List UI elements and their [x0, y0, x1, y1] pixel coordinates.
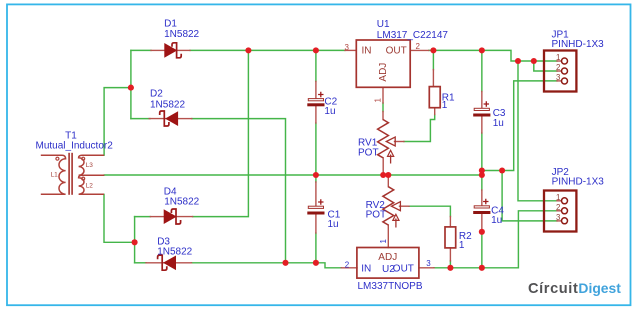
pin lead D2 left: [149, 118, 166, 120]
junction ground branch upper: [479, 167, 485, 173]
junction D2 riser on bottom rail: [282, 260, 288, 266]
svg-text:L2: L2: [86, 183, 94, 190]
pin lead U1 IN: [345, 49, 356, 51]
svg-text:CírcuitDigest: CírcuitDigest: [528, 280, 621, 297]
pin stub JP2 pin2: [557, 210, 561, 212]
junction C3 on out rail: [479, 47, 485, 53]
wire to D3 cathode: [135, 262, 146, 264]
svg-text:3: 3: [345, 43, 350, 52]
junction C1 on bottom rail: [313, 260, 319, 266]
resistor R1: [429, 87, 440, 108]
svg-text:1u: 1u: [493, 118, 504, 129]
pin stub JP2 pin3: [557, 220, 561, 222]
svg-text:IN: IN: [362, 46, 372, 57]
pin lead RV2 top: [387, 175, 389, 187]
wire D2 anode to negative rail: [192, 119, 286, 263]
svg-text:1N5822: 1N5822: [164, 196, 199, 207]
wire positive rail to JP2 pin1: [518, 61, 557, 201]
wire R2 bottom: [449, 261, 451, 268]
wire C3 bottom to ground node: [481, 133, 483, 175]
pin lead C4 top: [481, 190, 483, 206]
svg-text:IN: IN: [361, 263, 371, 274]
pin lead D1 left: [151, 49, 165, 51]
junction JP1 pin2 branch: [531, 58, 537, 64]
svg-text:D2: D2: [150, 89, 163, 100]
pin lead RV1 top: [382, 112, 384, 120]
junction JP2 pin3 branch: [499, 167, 505, 173]
pin lead R1 bottom: [434, 108, 436, 115]
junction C2 on top rail: [313, 47, 319, 53]
svg-text:1u: 1u: [491, 215, 502, 226]
wire D4 cathode to positive rail: [193, 50, 249, 216]
wire D4-D3 column: [134, 217, 136, 263]
wire D1-D2 anode column: [130, 50, 132, 118]
wire to D2 cathode: [131, 118, 150, 120]
wire negative rail right to JP2 pin2: [434, 211, 557, 268]
pin lead D4 left: [150, 216, 164, 218]
wire ground branch to JP2 pin3: [502, 171, 557, 221]
svg-text:ADJ: ADJ: [378, 252, 397, 263]
pin lead R2 top: [449, 217, 451, 227]
diode D4 1N5822: [164, 209, 180, 224]
svg-text:1u: 1u: [324, 106, 335, 117]
svg-text:1N5822: 1N5822: [157, 246, 192, 257]
wire C1 top: [315, 175, 317, 182]
junction JP2 pin1 branch: [515, 58, 521, 64]
svg-text:1: 1: [556, 193, 560, 202]
pin lead D3 left: [146, 262, 164, 264]
pin lead C3 bottom: [481, 116, 483, 133]
svg-text:3: 3: [556, 213, 560, 222]
junction ground rail end: [479, 172, 485, 178]
svg-text:2: 2: [556, 63, 560, 72]
wire center tap ground rail: [104, 174, 482, 176]
wire R1 top: [432, 50, 434, 69]
svg-text:3: 3: [426, 259, 431, 268]
wire C4 top: [481, 175, 483, 190]
pin lead D1 right: [177, 49, 190, 51]
potentiometer RV1 POT: [378, 120, 396, 164]
svg-text:1: 1: [556, 53, 560, 62]
wire to D1 anode: [131, 49, 151, 51]
svg-text:POT: POT: [358, 148, 379, 159]
wire bottom rail to U2 IN: [192, 263, 342, 268]
junction R1 on out rail: [430, 47, 436, 53]
pin lead U2 ADJ: [387, 225, 389, 247]
pin lead U2 IN: [341, 267, 357, 269]
pin lead C4 bottom: [481, 214, 483, 232]
svg-text:2: 2: [556, 203, 560, 212]
pin lead C1 top: [315, 182, 317, 206]
pin lead C2 top: [315, 81, 317, 98]
wire top rail right with jog to JP1 pin1: [429, 50, 557, 61]
wire C4 bottom: [481, 232, 483, 268]
svg-text:PINHD-1X3: PINHD-1X3: [552, 176, 605, 187]
svg-text:LM317_C22147: LM317_C22147: [377, 30, 449, 41]
pin stub JP1 pin3: [557, 80, 561, 82]
potentiometer RV2 POT: [383, 187, 401, 228]
wire to D4 anode: [135, 216, 151, 218]
capacitor C1 1u: [307, 199, 324, 214]
svg-text:1: 1: [374, 98, 383, 103]
junction RV2 on ground rail: [385, 172, 391, 178]
pin stub JP2 pin1: [557, 200, 561, 202]
capacitor C4 1u: [473, 199, 490, 214]
junction D1-D2 anodes: [128, 85, 134, 91]
svg-text:1: 1: [379, 239, 388, 244]
wire C1 bottom: [315, 233, 317, 263]
pin lead R2 bottom: [449, 248, 451, 261]
svg-text:ADJ: ADJ: [378, 63, 389, 82]
regulator U1 LM317_C22147: [356, 40, 410, 87]
pin stub JP1 pin1: [557, 60, 561, 62]
svg-text:1: 1: [459, 240, 465, 251]
svg-text:LM337TNOPB: LM337TNOPB: [358, 281, 423, 292]
pin lead C3 top: [481, 92, 483, 109]
pin header JP2 PINHD-1X3: [544, 191, 576, 232]
svg-text:1N5822: 1N5822: [164, 29, 199, 40]
pin stub JP1 pin2: [557, 70, 561, 72]
pin lead R1 top: [432, 70, 434, 87]
pin lead RV1 wiper: [395, 141, 404, 143]
pin lead U2 OUT: [419, 267, 434, 269]
pin lead C1 bottom: [315, 215, 317, 233]
regulator U2 LM337TNOPB: [357, 248, 419, 279]
junction D4-D3: [132, 239, 138, 245]
pin lead D4 right: [176, 216, 192, 218]
svg-text:OUT: OUT: [393, 263, 414, 274]
diode D3 1N5822: [158, 255, 176, 270]
svg-text:POT: POT: [366, 210, 387, 221]
svg-text:D1: D1: [164, 19, 177, 30]
junction D4 riser on top rail: [245, 47, 251, 53]
svg-text:3: 3: [556, 73, 560, 82]
wire ground branch to JP1 pin3: [482, 81, 557, 171]
wire top rail left: [190, 49, 345, 51]
svg-text:1N5822: 1N5822: [150, 99, 185, 110]
junction R2 on out rail: [447, 265, 453, 271]
diode D2 1N5822: [160, 111, 178, 126]
svg-text:2: 2: [416, 42, 421, 51]
wire JP1 pin2 branch: [534, 61, 557, 71]
svg-text:Mutual_Inductor2: Mutual_Inductor2: [36, 141, 114, 152]
svg-text:OUT: OUT: [386, 46, 407, 57]
resistor R2: [445, 227, 456, 248]
pin lead U1 ADJ: [382, 87, 384, 103]
wire C2 top: [315, 50, 317, 81]
pin lead C2 bottom: [315, 106, 317, 123]
capacitor C3 1u: [473, 101, 490, 116]
svg-text:L3: L3: [86, 162, 94, 169]
pin lead RV2 wiper: [400, 205, 410, 207]
svg-text:PINHD-1X3: PINHD-1X3: [552, 39, 605, 50]
svg-text:U1: U1: [377, 19, 390, 30]
diode D1 1N5822: [165, 43, 181, 58]
wire C3 top: [481, 50, 483, 91]
wire U1 ADJ to RV1: [382, 103, 384, 112]
svg-text:1u: 1u: [328, 219, 339, 230]
wire transformer L3 top to diode column: [104, 88, 131, 156]
pin lead D3 right: [176, 262, 192, 264]
svg-text:2: 2: [345, 261, 350, 270]
svg-text:1: 1: [442, 100, 448, 111]
wire transformer L2 bottom to diode column: [104, 194, 135, 242]
pin lead RV1 bottom: [382, 158, 384, 175]
wire RV2 wiper to R2: [409, 206, 450, 216]
capacitor C2 1u: [307, 92, 324, 107]
wire R1 bottom to RV1 wiper: [404, 115, 435, 142]
junction C4 bottom: [479, 229, 485, 235]
wire C2 bottom: [315, 123, 317, 175]
pin header JP1 PINHD-1X3: [544, 51, 576, 92]
transformer T1 Mutual_Inductor2: [41, 153, 105, 195]
junction C1-C2 on ground rail: [313, 172, 319, 178]
svg-text:L1: L1: [51, 171, 59, 178]
junction C4 on out rail: [479, 265, 485, 271]
pin lead D2 right: [178, 118, 192, 120]
junction RV1 on ground rail: [380, 172, 386, 178]
pin lead U1 OUT: [410, 49, 429, 51]
